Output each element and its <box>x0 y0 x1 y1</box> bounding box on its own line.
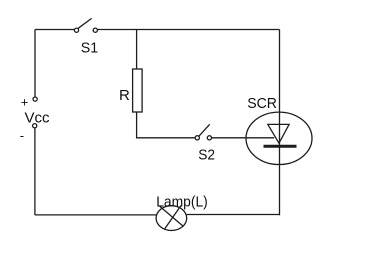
wire S2 to SCR gate <box>212 137 275 139</box>
wire resistor branch upper <box>136 30 138 70</box>
svg-text:SCR: SCR <box>247 95 277 112</box>
lamp cross stroke 2 <box>165 206 181 230</box>
SCR cathode bar <box>264 145 297 148</box>
svg-text:+: + <box>21 94 29 109</box>
wire bottom rail right segment <box>187 214 280 216</box>
svg-text:-: - <box>20 128 24 143</box>
Vcc positive terminal <box>33 97 37 101</box>
switch S1 left contact <box>74 28 78 32</box>
resistor R body <box>133 69 143 112</box>
switch S1 right contact <box>93 28 97 32</box>
wire right rail / SCR anode-cathode path <box>279 30 281 216</box>
wire bottom rail right corner <box>279 214 281 216</box>
wire top rail right segment <box>98 29 280 31</box>
wire top rail left segment <box>35 29 74 31</box>
wire resistor branch lower <box>137 112 196 138</box>
wire left rail lower <box>34 128 36 215</box>
wire left rail upper <box>34 30 36 98</box>
lamp L <box>156 206 187 231</box>
svg-text:Lamp(L): Lamp(L) <box>156 194 208 211</box>
switch S2 lever <box>199 124 210 136</box>
svg-text:S1: S1 <box>81 40 98 57</box>
switch S1 lever <box>78 18 91 28</box>
Vcc negative terminal <box>33 124 37 128</box>
switch S2 left contact <box>195 136 199 140</box>
svg-text:R: R <box>119 87 130 104</box>
svg-text:Vcc: Vcc <box>25 110 51 127</box>
svg-text:S2: S2 <box>198 147 215 164</box>
switch S2 right contact <box>207 136 211 140</box>
SCR body circle <box>246 112 312 164</box>
lamp cross stroke 1 <box>160 206 184 226</box>
wire bottom rail left segment <box>35 214 157 216</box>
SCR triangle (anode) <box>268 124 289 143</box>
